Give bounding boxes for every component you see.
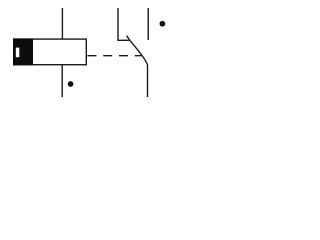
contact throw 2 terminal [147, 8, 149, 40]
coil block window [16, 48, 19, 58]
mechanical linkage (dashed) [87, 55, 141, 57]
switch blade [127, 36, 148, 65]
node dot contact side [160, 21, 166, 27]
wire coil top terminal [61, 8, 63, 39]
contact throw 1 terminal with foot [118, 8, 129, 40]
wire pole terminal [147, 65, 149, 98]
coil polarity block [13, 38, 33, 65]
wire coil bottom terminal [61, 65, 63, 97]
node dot coil side [68, 81, 74, 87]
relay coil K1 body [14, 39, 87, 65]
